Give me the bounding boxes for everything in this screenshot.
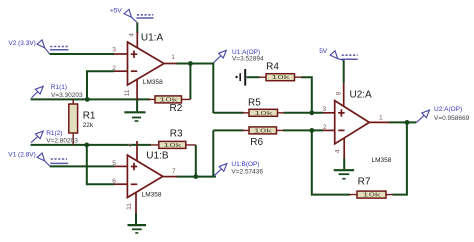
svg-text:10k: 10k xyxy=(163,143,182,149)
svg-text:U1:B(OP): U1:B(OP) xyxy=(231,161,259,168)
svg-text:3: 3 xyxy=(323,106,327,113)
svg-text:LM358: LM358 xyxy=(142,191,162,198)
svg-text:11: 11 xyxy=(124,89,131,96)
svg-text:3: 3 xyxy=(112,46,116,53)
svg-text:R6: R6 xyxy=(250,137,263,148)
svg-text:V=2.57436: V=2.57436 xyxy=(231,169,263,176)
svg-text:8: 8 xyxy=(336,91,343,95)
svg-text:2: 2 xyxy=(323,124,327,131)
svg-text:4: 4 xyxy=(129,33,136,37)
svg-text:V=3.30203: V=3.30203 xyxy=(51,92,83,99)
svg-text:U2:A(OP): U2:A(OP) xyxy=(434,106,462,113)
svg-text:U2:A: U2:A xyxy=(350,90,373,101)
svg-text:R1(2): R1(2) xyxy=(46,130,62,137)
svg-text:V1 (2.8V): V1 (2.8V) xyxy=(8,151,35,158)
svg-text:10k: 10k xyxy=(271,75,290,81)
svg-text:R7: R7 xyxy=(358,176,371,187)
svg-text:V2 (3.3V): V2 (3.3V) xyxy=(8,40,35,47)
svg-text:11: 11 xyxy=(126,203,133,210)
svg-text:U1:A: U1:A xyxy=(141,33,164,44)
svg-text:V=3.52894: V=3.52894 xyxy=(232,56,264,63)
svg-text:R5: R5 xyxy=(248,98,261,109)
svg-text:U1:B: U1:B xyxy=(146,150,169,161)
svg-text:LM358: LM358 xyxy=(143,79,163,86)
svg-text:+5V: +5V xyxy=(110,7,122,14)
svg-text:6: 6 xyxy=(112,178,116,185)
svg-text:4: 4 xyxy=(335,149,342,153)
svg-text:V=0.958669: V=0.958669 xyxy=(434,115,470,122)
svg-text:V=2.80203: V=2.80203 xyxy=(46,137,78,144)
svg-text:1: 1 xyxy=(379,115,383,122)
svg-text:1: 1 xyxy=(171,54,175,61)
svg-text:7: 7 xyxy=(172,168,176,175)
svg-text:2: 2 xyxy=(112,65,116,72)
svg-text:R1: R1 xyxy=(83,110,96,121)
svg-text:22k: 22k xyxy=(83,122,94,129)
svg-text:10k: 10k xyxy=(254,111,273,117)
svg-text:R4: R4 xyxy=(266,61,279,72)
svg-text:4: 4 xyxy=(127,143,134,147)
svg-text:10k: 10k xyxy=(363,193,382,199)
svg-text:5: 5 xyxy=(112,160,116,167)
svg-text:5V: 5V xyxy=(319,48,328,55)
svg-text:R2: R2 xyxy=(170,103,183,114)
svg-text:R3: R3 xyxy=(170,128,183,139)
svg-text:R1(1): R1(1) xyxy=(51,84,67,91)
svg-text:10k: 10k xyxy=(254,128,273,134)
svg-text:LM358: LM358 xyxy=(372,157,392,164)
